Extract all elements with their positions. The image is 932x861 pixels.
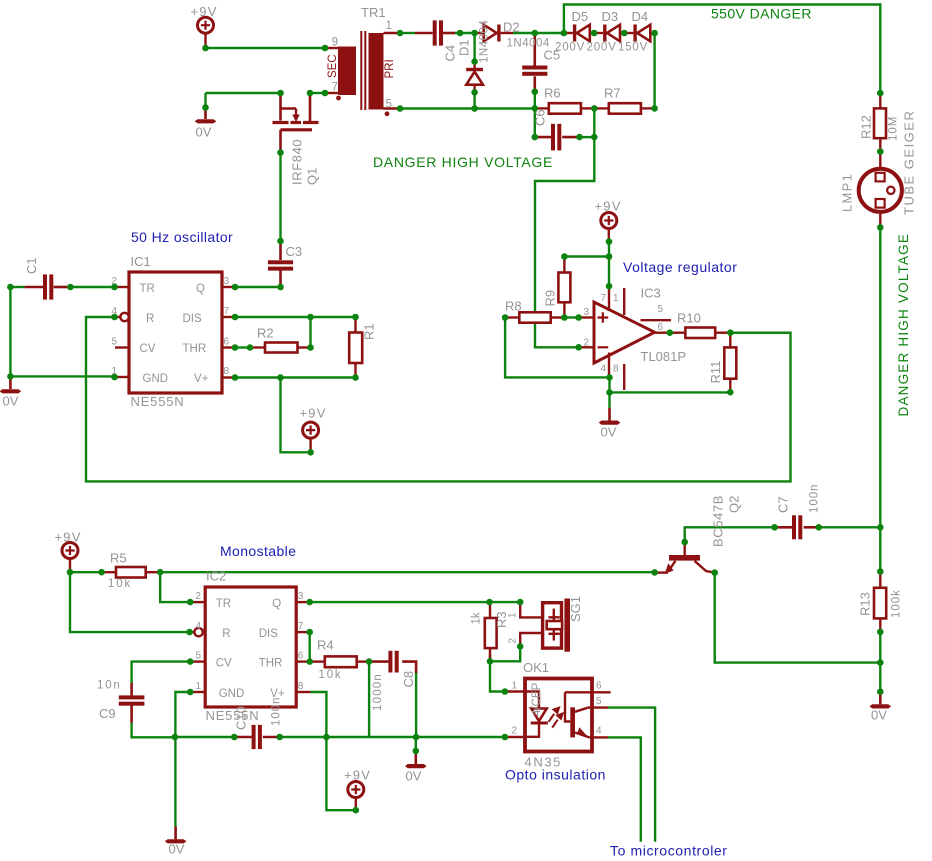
- svg-text:R7: R7: [604, 86, 621, 101]
- svg-text:7: 7: [600, 293, 606, 304]
- svg-text:Q1: Q1: [305, 168, 320, 185]
- svg-text:5: 5: [657, 304, 663, 315]
- svg-text:TR: TR: [216, 598, 231, 610]
- svg-text:THR: THR: [183, 343, 207, 355]
- svg-text:D2: D2: [503, 20, 520, 35]
- svg-text:R9: R9: [543, 290, 558, 307]
- svg-text:IC3: IC3: [641, 286, 661, 301]
- svg-text:6: 6: [596, 681, 602, 692]
- svg-text:4/CEP: 4/CEP: [531, 682, 543, 716]
- svg-text:+9V: +9V: [55, 530, 82, 545]
- svg-text:DIS: DIS: [259, 628, 279, 640]
- svg-text:+9V: +9V: [191, 4, 218, 19]
- svg-text:R2: R2: [257, 326, 274, 341]
- svg-text:PRI: PRI: [384, 59, 396, 78]
- svg-text:Voltage regulator: Voltage regulator: [623, 259, 737, 275]
- svg-text:IC1: IC1: [131, 254, 151, 269]
- svg-text:R4: R4: [317, 638, 334, 653]
- svg-text:10M: 10M: [888, 116, 900, 141]
- svg-text:0V: 0V: [871, 708, 887, 723]
- svg-text:D4: D4: [632, 9, 649, 24]
- svg-text:2: 2: [111, 276, 117, 287]
- svg-text:TUBE GEIGER: TUBE GEIGER: [902, 110, 917, 215]
- svg-text:R1: R1: [362, 323, 377, 340]
- svg-text:0V: 0V: [601, 425, 617, 440]
- svg-text:+9V: +9V: [344, 768, 371, 783]
- svg-text:+9V: +9V: [595, 199, 622, 214]
- svg-text:0V: 0V: [406, 769, 422, 784]
- svg-text:R13: R13: [858, 592, 873, 616]
- svg-text:R5: R5: [110, 551, 127, 566]
- svg-text:5: 5: [111, 337, 117, 348]
- svg-text:1: 1: [511, 681, 517, 692]
- svg-text:1: 1: [386, 20, 392, 32]
- svg-text:Q: Q: [272, 598, 281, 610]
- svg-text:200V: 200V: [587, 42, 617, 54]
- svg-text:6: 6: [224, 337, 230, 348]
- svg-text:R10: R10: [677, 311, 701, 326]
- svg-text:5: 5: [386, 99, 392, 111]
- svg-text:1: 1: [195, 681, 201, 692]
- svg-text:6: 6: [657, 322, 663, 333]
- svg-text:THR: THR: [259, 658, 283, 670]
- svg-text:D5: D5: [572, 9, 589, 24]
- svg-text:R11: R11: [708, 361, 723, 384]
- svg-text:CV: CV: [140, 343, 156, 355]
- svg-text:LMP1: LMP1: [840, 173, 855, 212]
- svg-text:SG1: SG1: [568, 596, 583, 622]
- svg-text:7: 7: [332, 82, 338, 94]
- svg-text:2: 2: [195, 591, 201, 602]
- svg-text:100k: 100k: [891, 589, 903, 618]
- svg-text:3: 3: [298, 591, 304, 602]
- svg-text:DANGER HIGH VOLTAGE: DANGER HIGH VOLTAGE: [896, 233, 911, 417]
- svg-text:Q: Q: [196, 283, 205, 295]
- svg-text:3: 3: [583, 307, 589, 318]
- svg-text:6: 6: [298, 651, 304, 662]
- svg-text:D3: D3: [602, 9, 619, 24]
- svg-text:0V: 0V: [169, 842, 185, 857]
- svg-text:5: 5: [195, 651, 201, 662]
- svg-text:TR: TR: [140, 283, 155, 295]
- svg-text:4: 4: [111, 306, 117, 317]
- svg-text:OK1: OK1: [523, 660, 549, 675]
- svg-text:GND: GND: [219, 688, 245, 700]
- svg-text:7: 7: [298, 621, 304, 632]
- svg-text:IRF840: IRF840: [290, 139, 305, 185]
- svg-text:1: 1: [111, 366, 117, 377]
- svg-text:8: 8: [298, 681, 304, 692]
- svg-text:4: 4: [195, 621, 201, 632]
- svg-text:2: 2: [583, 337, 589, 348]
- svg-text:550V DANGER: 550V DANGER: [711, 6, 812, 22]
- svg-text:50 Hz oscillator: 50 Hz oscillator: [131, 229, 233, 245]
- svg-text:NE555N: NE555N: [206, 708, 260, 723]
- svg-text:TL081P: TL081P: [641, 349, 687, 364]
- svg-text:10k: 10k: [319, 669, 343, 681]
- svg-text:DANGER HIGH VOLTAGE: DANGER HIGH VOLTAGE: [373, 154, 553, 170]
- svg-text:2: 2: [508, 638, 519, 644]
- svg-text:1N4004: 1N4004: [507, 38, 550, 50]
- svg-text:To microcontroler: To microcontroler: [610, 843, 728, 859]
- svg-text:Monostable: Monostable: [220, 543, 296, 559]
- svg-text:2: 2: [511, 726, 517, 737]
- svg-text:1N4004: 1N4004: [479, 20, 491, 63]
- svg-text:R12: R12: [859, 115, 874, 139]
- svg-text:4: 4: [600, 364, 606, 375]
- svg-text:8: 8: [613, 364, 619, 375]
- svg-text:1: 1: [508, 612, 519, 618]
- svg-text:V+: V+: [194, 373, 209, 385]
- svg-text:200V: 200V: [555, 42, 585, 54]
- svg-text:C7: C7: [776, 496, 791, 513]
- svg-text:IC2: IC2: [206, 569, 226, 584]
- svg-text:10k: 10k: [108, 578, 132, 590]
- svg-text:TR1: TR1: [361, 5, 386, 20]
- svg-text:10n: 10n: [97, 680, 122, 692]
- svg-text:DIS: DIS: [183, 313, 203, 325]
- svg-text:9: 9: [332, 37, 338, 49]
- svg-text:5: 5: [596, 696, 602, 707]
- svg-text:3: 3: [224, 276, 230, 287]
- svg-text:C9: C9: [99, 706, 116, 721]
- svg-text:GND: GND: [143, 373, 169, 385]
- svg-text:R8: R8: [505, 299, 522, 314]
- svg-text:C3: C3: [286, 244, 303, 259]
- svg-text:1k: 1k: [471, 612, 483, 624]
- svg-text:C8: C8: [401, 671, 416, 688]
- svg-text:100n: 100n: [809, 483, 821, 513]
- svg-text:C1: C1: [24, 257, 39, 274]
- svg-text:C6: C6: [533, 109, 548, 126]
- svg-text:R6: R6: [544, 86, 561, 101]
- svg-text:1: 1: [613, 293, 619, 304]
- svg-text:Q2: Q2: [727, 496, 742, 513]
- svg-text:C4: C4: [443, 45, 458, 62]
- svg-text:0V: 0V: [196, 125, 212, 140]
- svg-text:R: R: [146, 313, 154, 325]
- svg-text:CV: CV: [216, 658, 232, 670]
- svg-text:1000n: 1000n: [372, 673, 384, 711]
- svg-text:150V: 150V: [618, 42, 648, 54]
- svg-text:8: 8: [224, 366, 230, 377]
- svg-text:100n: 100n: [271, 696, 283, 726]
- svg-text:+9V: +9V: [300, 406, 327, 421]
- svg-text:SEC: SEC: [327, 54, 339, 78]
- svg-text:7: 7: [224, 306, 230, 317]
- svg-text:4: 4: [596, 726, 602, 737]
- svg-text:0V: 0V: [3, 394, 19, 409]
- svg-text:Opto insulation: Opto insulation: [505, 767, 606, 783]
- svg-text:D1: D1: [457, 39, 472, 56]
- svg-text:BC547B: BC547B: [711, 495, 726, 547]
- svg-text:NE555N: NE555N: [131, 394, 185, 409]
- svg-text:R: R: [222, 628, 230, 640]
- svg-text:C10: C10: [234, 706, 249, 730]
